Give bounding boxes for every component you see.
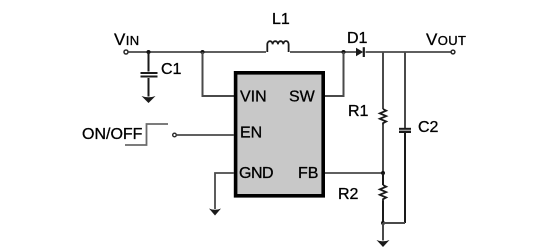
svg-text:VIN: VIN	[114, 30, 140, 49]
svg-text:GND: GND	[239, 165, 273, 182]
diode D1	[356, 47, 364, 57]
node VOUT terminal	[451, 50, 455, 54]
ground output	[377, 240, 390, 247]
wire to VIN pin	[203, 52, 235, 96]
junction R2/C2 bottom	[381, 221, 385, 225]
ground IC	[209, 209, 221, 216]
resistor R1	[380, 109, 386, 125]
wire EN	[177, 134, 234, 136]
svg-text:C2: C2	[418, 119, 439, 136]
wire top rail left	[129, 51, 267, 53]
junction C1	[147, 50, 151, 54]
wire bottom jumper	[383, 222, 405, 224]
wire GND	[215, 173, 234, 209]
node VIN terminal	[124, 50, 128, 54]
svg-text:EN: EN	[240, 125, 262, 142]
switch terminal node	[173, 133, 177, 137]
svg-text:VIN: VIN	[240, 89, 267, 106]
junction FB	[381, 171, 385, 175]
wire to output ground	[382, 223, 384, 241]
op-amp U1 (regulator IC)	[236, 73, 324, 196]
svg-text:FB: FB	[298, 165, 318, 182]
wire R1 drop	[382, 52, 384, 109]
wire rail to D1	[290, 51, 356, 53]
inductor L1	[267, 41, 288, 52]
switch S1	[125, 124, 168, 145]
ground C1	[142, 96, 156, 103]
svg-text:D1: D1	[347, 30, 368, 47]
wire R1 to FB	[382, 125, 384, 174]
junction VIN pin	[201, 50, 205, 54]
svg-text:R2: R2	[338, 186, 359, 203]
svg-text:C1: C1	[161, 61, 182, 78]
svg-text:L1: L1	[272, 11, 290, 28]
wire rail to VOUT	[366, 51, 452, 53]
wire C2 drop	[404, 52, 406, 128]
svg-text:VOUT: VOUT	[426, 30, 466, 49]
capacitor C2	[399, 129, 411, 223]
capacitor C1	[141, 52, 158, 97]
junction SW/D1	[342, 50, 346, 54]
svg-text:SW: SW	[289, 89, 316, 106]
resistor R2	[380, 173, 386, 223]
wire FB	[325, 172, 383, 174]
svg-text:R1: R1	[348, 103, 369, 120]
wire SW	[325, 52, 344, 96]
svg-text:ON/OFF: ON/OFF	[82, 126, 143, 143]
